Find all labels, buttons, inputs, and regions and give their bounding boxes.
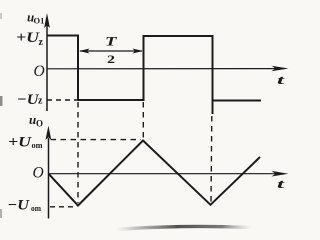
scan smudge artifact at bottom [116, 226, 252, 229]
svg-text:−U: −U [17, 92, 40, 108]
svg-text:t: t [277, 72, 285, 87]
arrowhead top x-axis [272, 66, 289, 72]
triangle wave u_O [49, 141, 261, 206]
arrowhead bottom y-axis [46, 126, 52, 141]
left edge scan mark 2 [0, 209, 2, 218]
svg-text:O1: O1 [34, 16, 45, 26]
dashed vertical node at x=143.3 (edge to triangle peak) [142, 102, 144, 139]
svg-text:+U: +U [16, 30, 40, 46]
svg-text:O: O [33, 165, 44, 182]
arrowhead top y-axis [44, 13, 50, 28]
svg-text:om: om [31, 204, 41, 213]
svg-text:+U: +U [8, 135, 32, 151]
svg-text:2: 2 [107, 54, 115, 66]
svg-text:−U: −U [8, 198, 31, 214]
svg-text:om: om [32, 141, 43, 150]
square wave u_O1 [47, 36, 261, 115]
left arrowhead T/2 [79, 49, 90, 54]
left edge scan mark 1 [0, 96, 3, 106]
dashed -Uom reference line [50, 206, 76, 208]
right arrowhead T/2 [133, 49, 144, 54]
arrowhead bottom x-axis [272, 171, 289, 177]
axis t (top x-axis) [47, 68, 284, 70]
dashed vertical node at x=211.5 (edge to triangle valley 2) [210, 116, 213, 202]
dashed +Uom reference line [51, 139, 142, 141]
T/2 dimension line [80, 50, 142, 52]
axis u_O (bottom y-axis) [48, 138, 50, 219]
svg-text:O: O [34, 63, 45, 80]
svg-text:z: z [39, 37, 44, 48]
dashed vertical node at x=78 (edge to triangle valley) [77, 102, 79, 203]
axis u_O1 (top y-axis) [46, 25, 48, 111]
dashed -Uz reference line [47, 99, 77, 101]
axis t (bottom x-axis) [49, 173, 285, 175]
left edge scan mark 3 [0, 13, 2, 19]
svg-text:O: O [36, 119, 43, 129]
svg-text:t: t [277, 176, 285, 191]
svg-text:z: z [38, 96, 43, 107]
